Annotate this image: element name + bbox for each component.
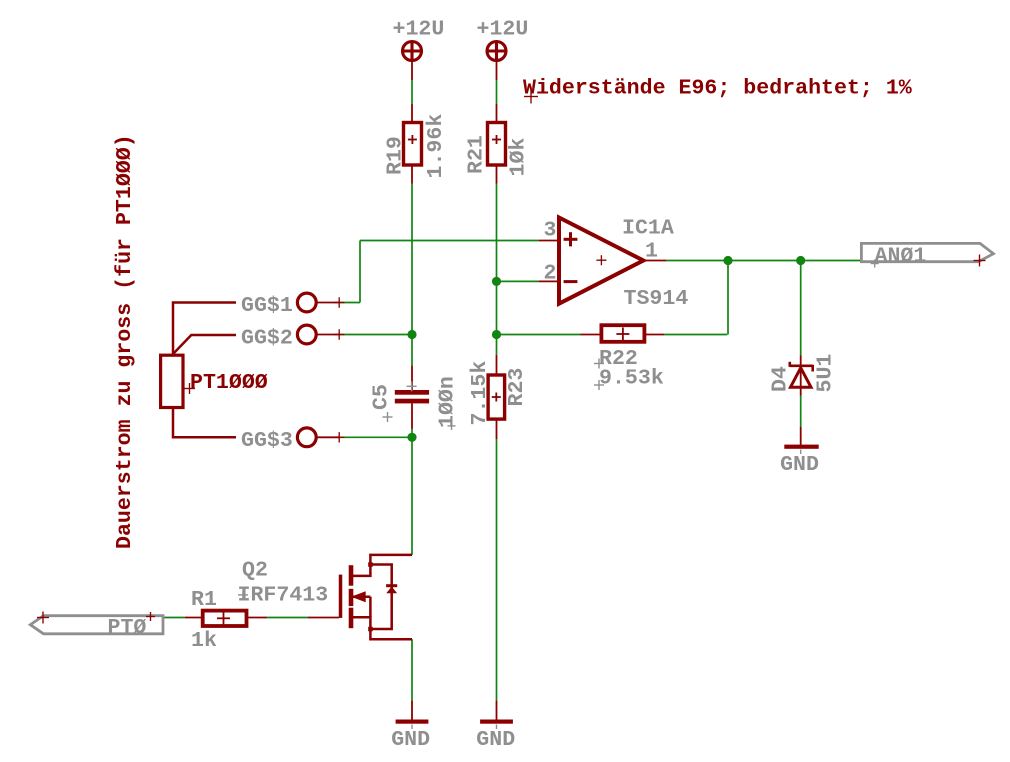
svg-text:+12U: +12U [477,17,529,41]
svg-text:GND: GND [780,453,819,477]
svg-text:GG$1: GG$1 [241,294,293,318]
svg-text:IRF7413: IRF7413 [238,584,329,608]
svg-text:GG$3: GG$3 [241,429,293,453]
svg-text:PT1ØØØ: PT1ØØØ [190,371,268,395]
svg-text:3: 3 [544,219,557,243]
svg-text:2: 2 [544,262,557,286]
svg-text:TS914: TS914 [624,287,689,311]
svg-text:1k: 1k [191,629,217,653]
svg-text:Q2: Q2 [242,559,268,583]
svg-text:R21: R21 [465,135,489,174]
svg-text:D4: D4 [769,366,793,392]
svg-text:9.53k: 9.53k [599,367,664,391]
svg-text:GG$2: GG$2 [241,326,293,350]
svg-text:C5: C5 [370,384,394,410]
svg-text:7.15k: 7.15k [468,361,492,426]
svg-text:1.96k: 1.96k [424,114,448,179]
svg-text:1Øk: 1Øk [507,138,531,177]
svg-text:1ØØn: 1ØØn [436,376,460,428]
svg-text:5U1: 5U1 [814,354,838,393]
svg-text:1: 1 [645,240,658,264]
svg-text:+12U: +12U [393,17,445,41]
svg-text:Widerstände E96; bedrahtet; 1%: Widerstände E96; bedrahtet; 1% [523,77,912,101]
svg-text:PTØ: PTØ [108,616,147,640]
svg-text:R19: R19 [384,136,408,175]
svg-text:R1: R1 [191,588,217,612]
svg-text:ANØ1: ANØ1 [875,245,927,269]
svg-text:Dauerstrom zu gross (für PT1ØØ: Dauerstrom zu gross (für PT1ØØØ) [113,134,137,549]
svg-text:IC1A: IC1A [622,217,674,241]
svg-text:R23: R23 [505,368,529,407]
svg-text:GND: GND [391,728,430,752]
svg-text:GND: GND [476,728,515,752]
